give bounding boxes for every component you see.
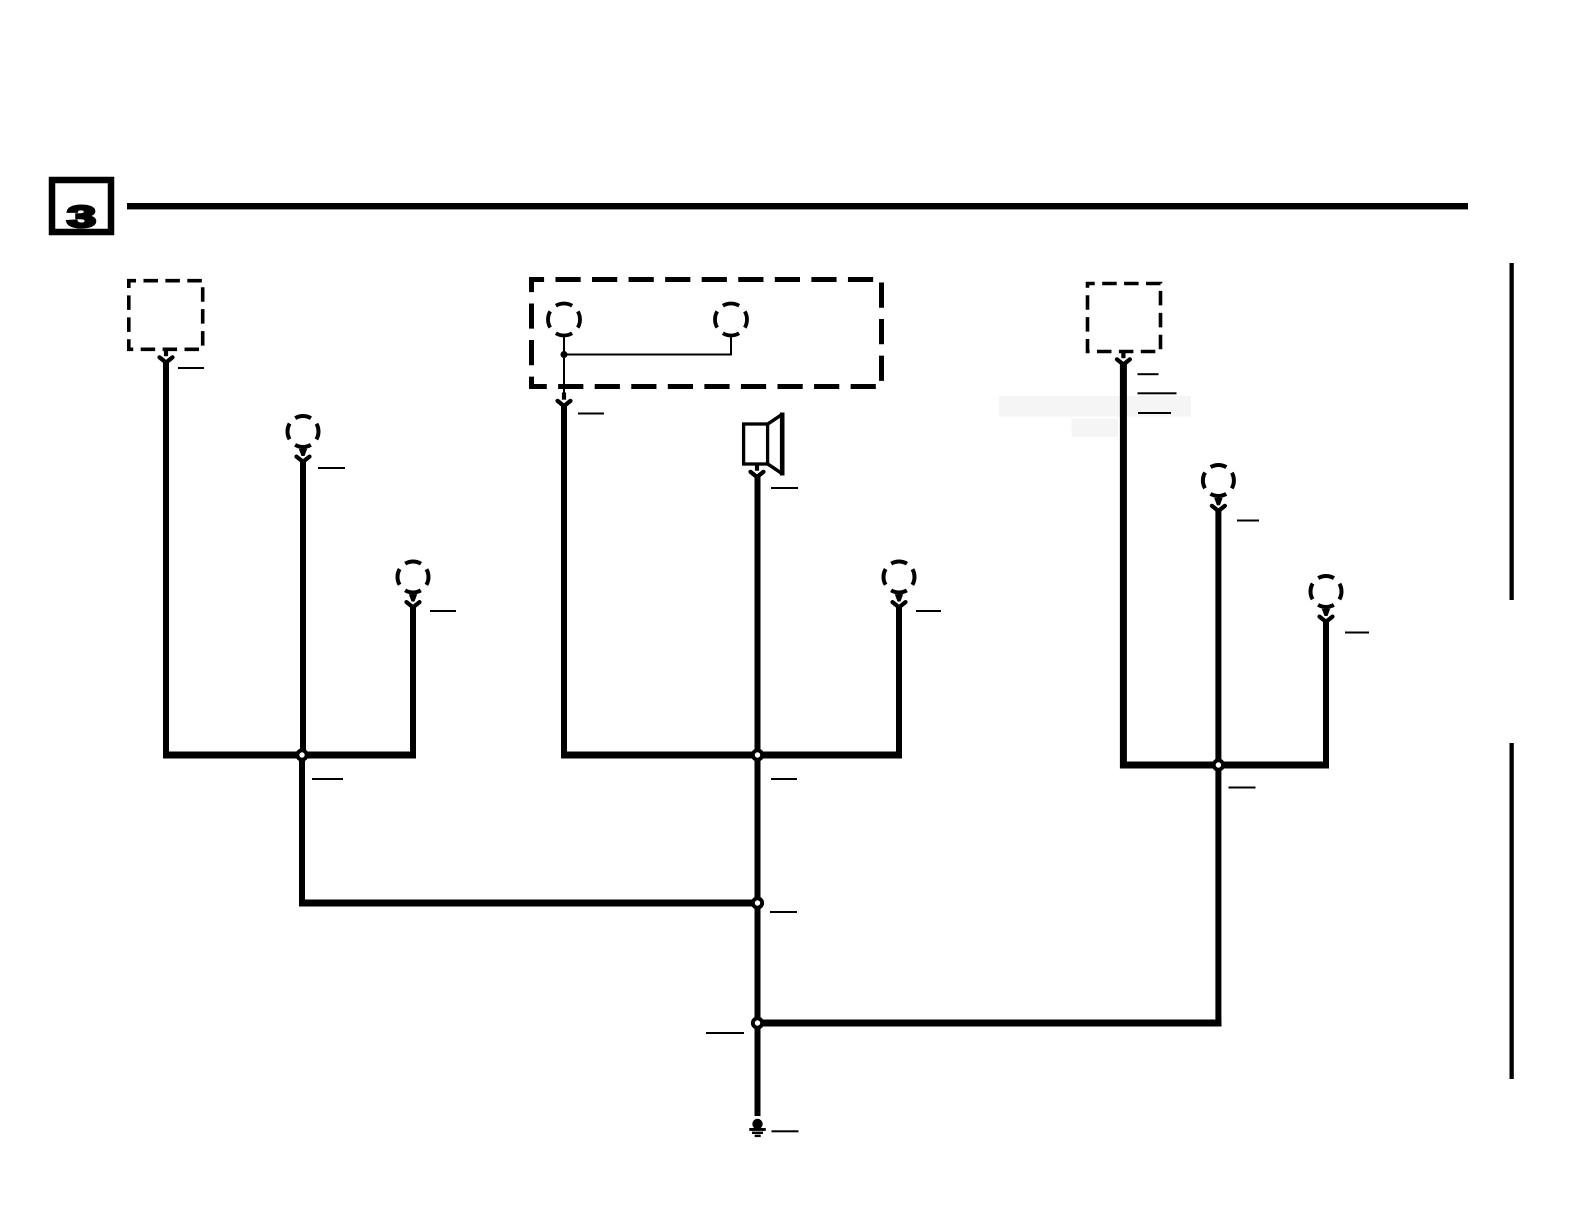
bulb E5 (dashed circle) (884, 562, 915, 593)
arrow terminal under E1 (297, 449, 310, 462)
wire label stub 3 (430, 610, 456, 612)
margin mark lower (1510, 743, 1514, 1079)
wire label stub 14 (1138, 412, 1171, 414)
bulb E6 (dashed circle) (1203, 465, 1234, 496)
wire label stub 8 (771, 778, 797, 780)
wire W5 (X1 down to middle bus) (561, 406, 567, 759)
bulb E2 (dashed circle) (398, 562, 429, 593)
right bus wire (1120, 762, 1329, 769)
redaction block (grey) right section upper (999, 396, 1191, 417)
wire W8 (J2 down to J3) (755, 755, 761, 903)
connector T2 (dashed box, right) (1088, 284, 1161, 352)
wire label stub 12 (1138, 373, 1159, 375)
cross wire J4 to right leg (755, 1020, 1222, 1027)
wire W9 (J3 down to J4) (755, 903, 761, 1023)
wire label stub 17 (1229, 787, 1256, 789)
wire W2 (E1 down to left bus) (300, 461, 306, 755)
bulb E1 (dashed circle) (288, 416, 319, 447)
connector T1 (dashed box, left) (129, 281, 203, 350)
arrow terminal under E7 (1320, 609, 1333, 622)
header rule (127, 203, 1468, 209)
wire label stub 5 (578, 413, 604, 415)
junction J1 (295, 748, 308, 761)
margin mark upper (1510, 263, 1514, 600)
ground G1 (749, 1119, 766, 1137)
arrow terminal under X1 (558, 393, 571, 407)
thin wire E4 down (730, 337, 732, 356)
wire label stub 10 (706, 1032, 744, 1034)
svg-text:3: 3 (67, 199, 96, 234)
middle bus wire (561, 752, 902, 759)
wire W7 (E5 down to middle bus) (896, 607, 902, 759)
wire label stub 7 (916, 610, 941, 612)
arrow terminal under E6 (1212, 498, 1225, 511)
wire W3 (E2 down to left bus) (410, 607, 416, 759)
junction J5 (1212, 758, 1225, 771)
arrow terminal under H1 (751, 464, 764, 478)
redaction block (grey) right section lower (1072, 419, 1119, 438)
wire W14 (J5 down to cross wire) (1215, 765, 1221, 1027)
page number frame box (52, 180, 111, 232)
wire label stub 15 (1237, 520, 1259, 522)
wire W13 (E7 down to right bus) (1323, 621, 1329, 768)
wire label stub 11 (772, 1130, 799, 1132)
wire label stub 1 (178, 367, 204, 369)
wire label stub 2 (318, 467, 345, 469)
arrow terminal under T2 (1117, 351, 1130, 365)
wire W12 (E6 down to right bus) (1215, 511, 1221, 769)
wire W6 (H1 down to middle bus) (755, 477, 761, 759)
arrow terminal under E2 (407, 594, 420, 607)
arrow terminal under E5 (893, 594, 906, 607)
wire label stub 9 (770, 911, 797, 913)
wire label stub 6 (771, 487, 798, 489)
arrow terminal under T1 (160, 349, 173, 363)
left bus wire (163, 752, 416, 759)
bulb E3 (dashed circle in X1) (548, 304, 580, 336)
wire W4 (J1 down) (299, 755, 305, 907)
bulb E4 (dashed circle in X1) (715, 304, 747, 336)
junction J3 (751, 896, 764, 909)
thin wire E3 down (563, 337, 565, 397)
wire label stub 13 (1138, 392, 1177, 394)
junction J4 (751, 1016, 764, 1029)
wire label stub 16 (1345, 632, 1369, 634)
thin wire E3-E4 horizontal (563, 354, 732, 356)
wire W11 (T2 down to right bus) (1120, 364, 1127, 769)
cross wire J1 to J3 (299, 900, 761, 907)
connector box X1 (large dashed box, middle) (532, 280, 882, 387)
wire W10 (J4 down to ground) (755, 1023, 761, 1116)
wire label stub 4 (312, 778, 343, 780)
junction dot in X1 (561, 351, 568, 358)
junction J2 (751, 748, 764, 761)
horn H1 (speaker icon) (744, 413, 783, 476)
bulb E7 (dashed circle) (1311, 576, 1342, 607)
wire W1 (T1 down to left bus) (163, 362, 169, 755)
